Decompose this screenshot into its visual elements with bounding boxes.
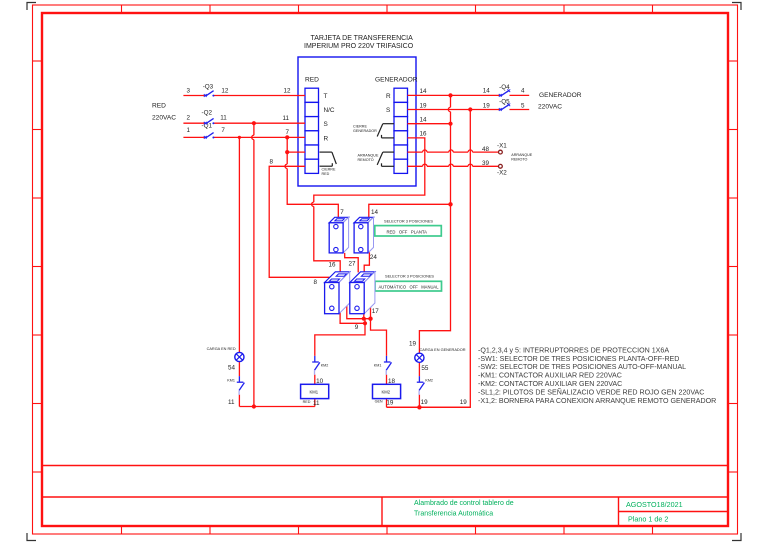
svg-text:RED OFF PLANTA: RED OFF PLANTA [387, 229, 428, 234]
svg-text:16: 16 [420, 130, 428, 137]
svg-text:39: 39 [482, 160, 490, 167]
net9 junction cluster [340, 311, 365, 324]
svg-text:ARRANQUE: ARRANQUE [511, 153, 532, 157]
svg-text:Alambrado de control tablero d: Alambrado de control tablero de [414, 500, 514, 507]
selector SW2 legend box [375, 281, 442, 291]
svg-text:Transferencia Automática: Transferencia Automática [414, 511, 493, 518]
svg-text:8: 8 [270, 159, 274, 166]
svg-text:AUTOMÁTICO OFF MANUAL: AUTOMÁTICO OFF MANUAL [379, 284, 439, 290]
svg-text:T: T [324, 93, 328, 100]
svg-text:-X1: -X1 [497, 143, 507, 150]
labels selectors wires [314, 209, 380, 331]
svg-text:1: 1 [187, 127, 191, 134]
relay contact CIERRE GENERADOR [377, 124, 394, 138]
svg-text:11: 11 [220, 115, 227, 122]
svg-text:-Q2: -Q2 [202, 110, 213, 117]
selector SW2 pole B (3D double box) [350, 272, 375, 314]
svg-text:SELECTOR 3 POSICIONES: SELECTOR 3 POSICIONES [384, 220, 433, 224]
NOTES [478, 346, 716, 404]
KM1 branch lower [314, 375, 316, 407]
breaker Q5 [499, 99, 510, 111]
svg-text:-Q5: -Q5 [499, 99, 510, 106]
aux contact KM1 (KM2 coil branch) [374, 356, 396, 385]
junction net 14 top [448, 93, 452, 97]
junction net 17 [368, 317, 372, 321]
svg-text:14: 14 [371, 209, 379, 216]
wire net8 [269, 166, 329, 277]
terminal X1 [497, 143, 507, 154]
bus 14 vertical [419, 95, 450, 352]
wire number labels right [420, 88, 526, 167]
svg-text:24: 24 [370, 254, 378, 261]
junction rail 11 [252, 404, 256, 408]
contactor coil KM1 [301, 384, 329, 407]
svg-text:7: 7 [221, 127, 225, 134]
junction rail 19 [417, 405, 421, 409]
svg-text:19: 19 [420, 102, 428, 109]
svg-text:-SL1,2: PILOTOS DE SEÑALIZACIO: -SL1,2: PILOTOS DE SEÑALIZACIO VERDE RED… [478, 387, 704, 396]
junction net 7 lamp branch [238, 136, 241, 139]
right lamp branch [418, 362, 420, 407]
svg-text:55: 55 [421, 365, 429, 372]
relay contact ARRANQUE REMOTO (card) [377, 152, 394, 166]
breaker Q1 [202, 123, 215, 139]
svg-text:11: 11 [228, 399, 235, 406]
svg-text:7: 7 [286, 129, 290, 136]
svg-text:AGOSTO18/2021: AGOSTO18/2021 [626, 500, 683, 509]
svg-text:-SW1: SELECTOR DE TRES POSICIO: -SW1: SELECTOR DE TRES POSICIONES PLANTA… [478, 355, 679, 363]
svg-text:R: R [324, 135, 329, 142]
svg-text:KM1: KM1 [374, 364, 382, 368]
svg-text:11: 11 [313, 400, 320, 407]
svg-text:2: 2 [187, 115, 191, 122]
KM2 branch lower [386, 375, 388, 408]
svg-text:-SW2: SELECTOR DE TRES POSICIO: -SW2: SELECTOR DE TRES POSICIONES AUTO-O… [478, 363, 686, 371]
selector SW1 pole B (3D box) [354, 217, 373, 253]
svg-text:CIERRE: CIERRE [322, 168, 336, 172]
wire 14 row3 [408, 123, 451, 125]
svg-text:220VAC: 220VAC [152, 114, 176, 121]
aux contact KM2 (right lamp branch) [417, 376, 433, 395]
selector SW2 pole A (3D double box) [325, 272, 350, 314]
wire 48 to X1 [408, 151, 499, 153]
junction net 9 b [363, 321, 367, 325]
svg-text:KM1: KM1 [310, 390, 319, 395]
wire net16 from card [314, 138, 425, 272]
svg-text:-KM2: CONTACTOR AUXILIAR GEN 2: -KM2: CONTACTOR AUXILIAR GEN 220VAC [478, 380, 622, 388]
TITLE BLOCK [42, 466, 728, 527]
pilot lamp SL2 (carga en generador) [409, 341, 466, 372]
svg-text:17: 17 [372, 308, 380, 315]
svg-text:27: 27 [349, 261, 357, 268]
breaker Q3 [203, 84, 215, 97]
svg-text:19: 19 [386, 400, 394, 407]
svg-text:14: 14 [483, 88, 491, 95]
junction net 19 top [468, 107, 472, 111]
svg-text:Plano 1 de 2: Plano 1 de 2 [628, 515, 668, 524]
wire net11 vertical drop [253, 123, 255, 406]
breaker Q2 [202, 110, 215, 125]
svg-text:IMPERIUM PRO 220V TRIFASICO: IMPERIUM PRO 220V TRIFASICO [304, 43, 414, 50]
svg-text:KM2: KM2 [382, 390, 391, 395]
svg-text:ARRANQUE: ARRANQUE [358, 154, 379, 158]
svg-text:-KM1: CONTACTOR AUXILIAR RED 2: -KM1: CONTACTOR AUXILIAR RED 220VAC [478, 372, 622, 380]
svg-text:KM2: KM2 [425, 379, 433, 383]
rail 19 [387, 406, 471, 408]
svg-text:GENERADOR: GENERADOR [375, 77, 418, 84]
svg-text:RED: RED [303, 400, 311, 404]
svg-text:220VAC: 220VAC [538, 103, 562, 110]
rail 11 [239, 406, 314, 408]
breaker Q4 [499, 84, 510, 97]
svg-text:S: S [386, 107, 390, 114]
wire net14 selector feed [369, 204, 451, 217]
aux contact KM2 (KM1 coil branch) [312, 356, 328, 385]
wire 17 [371, 305, 387, 356]
wire 14 card to Q4 [408, 94, 530, 96]
wire 39 to X2 [408, 165, 499, 167]
junction net 14 selector feed [448, 202, 452, 206]
left lamp branch lower [238, 361, 240, 406]
svg-text:14: 14 [420, 88, 428, 95]
selector SW1 legend box [375, 226, 442, 236]
svg-text:11: 11 [283, 115, 290, 122]
wire L3 / 12 [183, 95, 305, 97]
terminal X2 [497, 164, 507, 176]
pilot lamp SL1 (carga en red) [207, 347, 244, 371]
wire net7 row5 stub [287, 151, 305, 153]
relay contact CIERRE RED [320, 152, 337, 166]
svg-text:48: 48 [482, 146, 490, 153]
transfer card U1 [298, 35, 418, 186]
bus 19 vertical [387, 110, 471, 408]
svg-text:19: 19 [421, 399, 429, 406]
svg-text:12: 12 [221, 88, 229, 95]
svg-text:RED: RED [152, 103, 166, 110]
svg-text:GEN: GEN [375, 399, 383, 403]
svg-text:KM1: KM1 [227, 379, 235, 383]
wire net7 lamp branch vertical [238, 137, 240, 352]
wire 27 selector link [345, 253, 359, 273]
svg-text:REMOTO: REMOTO [511, 157, 527, 161]
junction net 7 card row 5 [285, 150, 289, 154]
svg-text:CARGA EN RED: CARGA EN RED [207, 347, 236, 351]
svg-text:16: 16 [329, 262, 337, 269]
junction net 11 on wire 11 [252, 121, 256, 125]
svg-text:7: 7 [340, 209, 344, 216]
wire number labels left [187, 88, 292, 166]
svg-text:-X1,2: BORNERA PARA CONEXION A: -X1,2: BORNERA PARA CONEXION ARRANQUE RE… [478, 397, 716, 405]
svg-text:CARGA EN GENERADOR: CARGA EN GENERADOR [420, 348, 466, 352]
svg-text:KM2: KM2 [321, 364, 329, 368]
wire net7 to selector [287, 137, 338, 218]
contactor coil KM2 [373, 384, 401, 406]
svg-text:12: 12 [284, 88, 292, 95]
svg-text:19: 19 [409, 341, 417, 348]
wire 19 card to Q5 [408, 109, 530, 111]
wire L2 / 11 [183, 122, 305, 124]
svg-text:-Q3: -Q3 [203, 84, 214, 91]
selector SW1 pole A (3D box) [329, 217, 348, 253]
svg-text:-Q1: -Q1 [202, 123, 213, 130]
svg-text:19: 19 [483, 102, 491, 109]
wire 24 selector link [364, 252, 369, 272]
svg-text:RED: RED [322, 172, 330, 176]
svg-text:GENERADOR: GENERADOR [539, 92, 582, 99]
svg-text:TARJETA DE TRANSFERENCIA: TARJETA DE TRANSFERENCIA [311, 35, 414, 42]
svg-text:RED: RED [305, 77, 319, 84]
svg-text:19: 19 [460, 399, 468, 406]
junction net 9 a [362, 317, 366, 321]
svg-text:9: 9 [355, 324, 359, 331]
svg-text:N/C: N/C [324, 107, 335, 114]
terminal strip RED (left) [305, 88, 319, 173]
svg-text:54: 54 [228, 365, 236, 372]
svg-text:CIERRE: CIERRE [353, 125, 367, 129]
svg-text:14: 14 [420, 116, 428, 123]
svg-text:-Q4: -Q4 [499, 84, 510, 91]
junction net 7 selector branch [285, 135, 289, 139]
aux contact KM1 (left lamp branch) [227, 376, 244, 406]
junction net 14 row 3 [448, 122, 452, 126]
svg-text:8: 8 [314, 279, 318, 286]
svg-text:3: 3 [187, 88, 191, 95]
svg-text:GENERADOR: GENERADOR [353, 129, 377, 133]
svg-text:5: 5 [521, 102, 525, 109]
svg-text:4: 4 [521, 88, 525, 95]
svg-text:-Q1,2,3,4 y 5: INTERRUPTORRES: -Q1,2,3,4 y 5: INTERRUPTORRES DE PROTECC… [478, 346, 669, 354]
wire L1 / 7 [183, 136, 305, 138]
svg-text:REMOTO: REMOTO [358, 158, 374, 162]
svg-text:SELECTOR 3 POSICIONES: SELECTOR 3 POSICIONES [385, 274, 434, 278]
svg-text:S: S [324, 121, 328, 128]
svg-text:R: R [386, 93, 391, 100]
svg-text:-X2: -X2 [497, 170, 507, 177]
terminal strip GENERADOR (right) [394, 88, 408, 173]
